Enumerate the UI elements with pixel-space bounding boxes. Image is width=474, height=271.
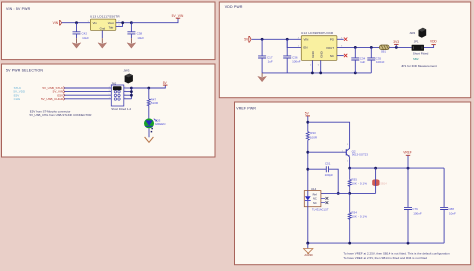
svg-text:AGND: AGND xyxy=(304,253,312,257)
svg-text:Short Fitted 1-2: Short Fitted 1-2 xyxy=(111,107,131,111)
svg-text:R33: R33 xyxy=(310,131,316,135)
svg-text:C42: C42 xyxy=(82,31,88,35)
svg-text:5V_USB_CHGR: 5V_USB_CHGR xyxy=(41,97,64,101)
wire U12 GND pins down xyxy=(312,60,320,73)
svg-text:C51: C51 xyxy=(325,161,331,165)
svg-text:7: 7 xyxy=(109,97,110,99)
node R34 bottom xyxy=(348,242,351,245)
node gnd pin a xyxy=(311,72,314,75)
wire EN branch xyxy=(287,39,301,47)
svg-text:NC: NC xyxy=(313,201,317,205)
power port 3V3 xyxy=(394,43,398,45)
svg-text:VREF: VREF xyxy=(403,151,412,155)
wire row4 xyxy=(64,98,111,100)
svg-text:VIN : 5V PWR: VIN : 5V PWR xyxy=(6,7,31,11)
capacitor C42 xyxy=(73,32,81,34)
solder bridge SB14 xyxy=(375,168,377,179)
ground under U13 xyxy=(98,43,107,48)
resistor R33 xyxy=(306,132,309,141)
svg-text:SB14: SB14 xyxy=(380,182,387,186)
svg-text:SB1: SB1 xyxy=(381,50,387,54)
wire row3 out xyxy=(124,94,132,96)
transistor Q2 xyxy=(345,149,347,155)
connector JW3 body xyxy=(111,85,124,106)
svg-text:3: 3 xyxy=(109,90,110,92)
svg-text:10K - 0.1%: 10K - 0.1% xyxy=(351,215,367,219)
svg-text:1: 1 xyxy=(109,87,110,89)
capacitor C17 xyxy=(258,56,266,58)
node collector branch xyxy=(306,121,309,124)
svg-text:U12 LD39050PU33R: U12 LD39050PU33R xyxy=(301,31,334,35)
wire row1 out to bus xyxy=(124,87,132,89)
LED LD3 xyxy=(144,118,154,128)
wire to R47 xyxy=(148,88,150,99)
node emitter junction xyxy=(348,167,351,170)
node 3V3 junction xyxy=(395,46,398,49)
ground under C42 xyxy=(72,43,81,48)
wire row2 out xyxy=(124,91,132,93)
svg-text:Tab: Tab xyxy=(109,25,114,29)
wire U13 Tab loop up xyxy=(116,23,123,27)
svg-text:GND: GND xyxy=(319,51,323,57)
capacitor C76 xyxy=(407,168,409,243)
sheet block: VDD PWR xyxy=(219,2,470,98)
svg-text:Short Fitted: Short Fitted xyxy=(413,52,429,56)
capacitor C36 xyxy=(283,56,291,58)
jumper cap 3D icon xyxy=(419,28,427,38)
svg-text:To have VREF at 2.5V, then SB1: To have VREF at 2.5V, then SB14 is fitte… xyxy=(343,256,427,260)
wire LED to ground xyxy=(148,128,150,137)
wire R33 to U14 xyxy=(307,140,309,190)
wire row2 xyxy=(64,91,111,93)
capacitor C34 xyxy=(351,58,359,60)
svg-text:10K - 0.1%: 10K - 0.1% xyxy=(351,181,367,185)
pin circles row4 xyxy=(114,98,116,100)
ground triangle xyxy=(258,76,267,81)
svg-text:1uF: 1uF xyxy=(268,59,273,63)
sheet block: 5V PWR SELECTION xyxy=(2,64,216,157)
sheet block: VIN 5V PWR xyxy=(2,2,216,60)
svg-text:NC: NC xyxy=(330,54,334,58)
svg-text:5V_USB_CHG from USB-STLINK CON: 5V_USB_CHG from USB-STLINK CONNECTOR xyxy=(30,113,92,117)
wire C42 top xyxy=(76,23,78,32)
node C51 branch on rail xyxy=(306,168,309,171)
resistor R35 xyxy=(348,168,351,193)
node SB14 branch xyxy=(374,167,377,170)
svg-text:VIN: VIN xyxy=(304,38,309,42)
pin NC stub with no-connect xyxy=(337,55,344,57)
wire gnd stub xyxy=(261,73,263,77)
svg-text:Vin: Vin xyxy=(93,21,98,25)
wire base xyxy=(308,151,347,153)
node C34 top xyxy=(354,46,357,49)
pin PG stub with no-connect xyxy=(337,38,344,40)
svg-text:VIN: VIN xyxy=(53,21,59,25)
svg-text:100nF: 100nF xyxy=(376,60,385,64)
wire C38 bottom xyxy=(130,34,132,38)
port chevron row4 xyxy=(63,97,64,100)
svg-text:TL431ACL5T: TL431ACL5T xyxy=(312,208,329,212)
svg-text:100R: 100R xyxy=(310,136,318,140)
port chevron row1 xyxy=(63,87,64,90)
svg-text:GND: GND xyxy=(311,51,315,57)
node gnd C34 xyxy=(354,72,357,75)
node ref junction xyxy=(348,192,351,195)
svg-text:9013-SOT23: 9013-SOT23 xyxy=(352,153,368,157)
pin circles row3 xyxy=(114,94,116,96)
wire U13 Gnd pin down xyxy=(101,31,103,39)
wire C36 bottom xyxy=(286,58,288,73)
node C76 bottom xyxy=(407,242,410,245)
power port 5V xyxy=(163,84,168,86)
pin circles row2 xyxy=(114,91,116,93)
wire SB1 to JP1 xyxy=(389,46,411,48)
wire R47 to LED xyxy=(148,106,150,119)
svg-text:3V3: 3V3 xyxy=(393,40,399,44)
node gnd pin b xyxy=(319,72,322,75)
svg-text:JP1 for IDD Measurement: JP1 for IDD Measurement xyxy=(401,64,437,68)
wire C51 to ref node xyxy=(329,169,338,193)
power port VDD xyxy=(431,44,435,46)
svg-text:100nF: 100nF xyxy=(292,59,301,63)
wire 5V rail down xyxy=(307,122,309,131)
node base junction xyxy=(306,151,309,154)
ferrite bead SB1 xyxy=(379,45,389,50)
wire C35 xyxy=(370,47,372,73)
port chevron row2 xyxy=(63,90,64,93)
resistor R47 xyxy=(147,99,150,106)
pin dots xyxy=(151,128,153,130)
svg-text:Vout: Vout xyxy=(108,21,114,25)
wire JP1 to VDD xyxy=(424,45,434,48)
capacitor C88 xyxy=(443,168,445,243)
wire U14 anode down xyxy=(307,207,309,243)
node rail corner xyxy=(306,242,309,245)
node Tab join xyxy=(121,21,124,24)
svg-text:10nF: 10nF xyxy=(449,211,456,215)
svg-text:Gnd: Gnd xyxy=(100,27,106,31)
wire rail to C51 xyxy=(308,168,326,170)
svg-text:Ref: Ref xyxy=(313,192,317,196)
wire to 5V_VIN port xyxy=(131,18,178,22)
svg-text:CHG: CHG xyxy=(14,97,21,101)
svg-text:10uF: 10uF xyxy=(82,36,89,40)
wire ref xyxy=(321,192,350,194)
node junction at C42 xyxy=(75,21,78,24)
svg-text:1uF: 1uF xyxy=(360,60,365,64)
capacitor C38 xyxy=(127,32,135,34)
node R47 top xyxy=(147,87,150,90)
svg-text:VREF PWR: VREF PWR xyxy=(236,106,256,110)
wire right bus xyxy=(130,88,132,99)
node bus row1 xyxy=(130,87,133,90)
resistor R34 xyxy=(348,193,351,243)
node bus row3 xyxy=(130,94,133,97)
capacitor C51 xyxy=(326,166,328,172)
svg-text:NC: NC xyxy=(313,197,317,201)
wire C17 top xyxy=(261,39,263,55)
svg-text:SB2: SB2 xyxy=(413,57,419,61)
svg-text:5V_VIN: 5V_VIN xyxy=(172,14,184,18)
power port 5V_VIN xyxy=(176,17,180,19)
node C35 top xyxy=(370,46,373,49)
svg-text:100nF: 100nF xyxy=(413,211,422,215)
wire bottom rail xyxy=(308,242,444,244)
wire row3 xyxy=(64,94,111,96)
wire C17 bottom xyxy=(261,58,263,73)
port chevron row3 xyxy=(63,94,64,97)
svg-text:5: 5 xyxy=(109,94,110,96)
pin NC stubs with X xyxy=(321,198,325,202)
wire VOUT rail xyxy=(337,46,380,48)
wire to collector xyxy=(308,122,350,148)
sheet block: VREF PWR xyxy=(235,102,471,265)
svg-text:VDD PWR: VDD PWR xyxy=(225,5,243,9)
wire SB14 bottom to ref node xyxy=(350,192,376,194)
svg-text:To have VREF at 2.25V, then SB: To have VREF at 2.25V, then SB14 is not … xyxy=(343,251,450,255)
wire bus to 5V port xyxy=(131,86,165,89)
svg-text:JP1: JP1 xyxy=(414,39,419,43)
wire ground bus xyxy=(262,72,371,74)
wire C42 bottom xyxy=(76,34,78,38)
svg-text:100pF: 100pF xyxy=(325,173,334,177)
node VREF branch xyxy=(407,167,410,170)
svg-text:JW4: JW4 xyxy=(409,31,415,35)
svg-text:EN: EN xyxy=(304,46,308,50)
svg-text:VDD: VDD xyxy=(430,39,437,43)
ground under C38 xyxy=(127,43,136,48)
wire C38 top xyxy=(130,23,132,32)
wire emitter rail xyxy=(350,167,444,169)
wire U13 Vout to junction xyxy=(116,22,132,24)
capacitor C35 xyxy=(367,58,375,60)
jumper JP1 body xyxy=(412,45,424,51)
svg-text:5V PWR SELECTION: 5V PWR SELECTION xyxy=(6,68,43,72)
node C38 junction xyxy=(130,21,133,24)
wire 5V to U12.VIN xyxy=(252,38,302,40)
svg-text:C38: C38 xyxy=(137,31,143,35)
svg-text:VOUT: VOUT xyxy=(326,46,334,50)
jumper shunt on pins 1-2 xyxy=(113,86,122,90)
wire C36 top xyxy=(286,39,288,55)
wire row1 xyxy=(64,87,111,89)
node C51 at ref wire xyxy=(337,192,340,195)
node bus row2 xyxy=(130,90,133,93)
svg-text:510R: 510R xyxy=(151,101,159,105)
jumper cap 3D icon xyxy=(125,74,133,84)
svg-text:JW3: JW3 xyxy=(123,68,129,72)
wire row4 out xyxy=(124,98,132,100)
svg-text:U13 LD1117S50TR: U13 LD1117S50TR xyxy=(90,14,120,18)
wire C34 xyxy=(354,47,356,73)
svg-text:GREEN: GREEN xyxy=(155,122,166,126)
power ground arrow xyxy=(145,137,154,142)
ground AGND xyxy=(307,243,309,248)
wire VIN to U13.Vin xyxy=(62,22,91,24)
svg-text:10uF: 10uF xyxy=(137,36,144,40)
node C17 junction xyxy=(261,38,264,41)
node C36/EN junction xyxy=(286,38,289,41)
